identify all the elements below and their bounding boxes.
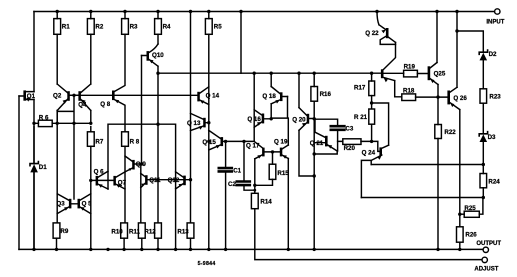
transistor Q20 xyxy=(307,114,310,124)
transistor Q11 xyxy=(145,175,148,185)
resistor R25 xyxy=(464,211,479,217)
transistor Q10 xyxy=(147,51,150,61)
wire bottom output rail xyxy=(19,248,483,250)
svg-text:Q 26: Q 26 xyxy=(453,95,467,102)
svg-text:R4: R4 xyxy=(163,23,171,30)
svg-text:R10: R10 xyxy=(111,228,123,235)
junction top rail at Q22 emitter xyxy=(375,10,378,13)
wire Q10 base vertical down to Q9 base xyxy=(141,56,143,165)
wire R26 bottom lead xyxy=(459,242,461,249)
junction bottom rail at R26 xyxy=(458,248,461,251)
arrow Q5 xyxy=(80,207,85,211)
junction bottom rail at x90.8 xyxy=(89,248,92,251)
arrow Q26 xyxy=(450,103,454,108)
arrow Q21 xyxy=(328,145,333,149)
junction 73-line at R17 xyxy=(370,72,373,75)
transistor Q5 xyxy=(78,199,81,209)
svg-text:Q 18: Q 18 xyxy=(262,93,276,100)
resistor R23 xyxy=(480,89,487,103)
resistor R5 xyxy=(205,19,212,35)
wire R25 left lead xyxy=(460,213,464,215)
zener diode D3 xyxy=(480,134,488,142)
junction top rail at Q26 collector xyxy=(455,10,458,13)
junction bottom rail at x175.6 xyxy=(174,248,177,251)
wire R1 leads xyxy=(56,12,58,85)
wire R6 line from x34 to R7 top xyxy=(34,122,91,124)
junction R17/R21 mid xyxy=(370,101,373,104)
arrow Q10 xyxy=(149,60,154,64)
svg-text:OUTPUT: OUTPUT xyxy=(476,241,501,247)
wire Q2 emitter down to R6 line xyxy=(56,111,58,124)
arrow Q24 xyxy=(377,155,381,160)
wire R17 leads xyxy=(371,73,373,109)
transistor Q4 xyxy=(78,91,81,101)
transistor Q22 xyxy=(386,28,389,38)
transistor Q6 xyxy=(96,176,99,186)
arrow Q16 xyxy=(257,122,262,126)
transistor Q18 xyxy=(280,92,283,101)
zener diode D2 xyxy=(480,53,488,61)
svg-text:Q7: Q7 xyxy=(118,179,127,186)
wire mid horizontal 73-line from Q10 emitter to Q23 base xyxy=(158,72,381,74)
wire R17/R21 junction over to Q24 collector xyxy=(372,103,389,145)
junction D3/R24 y164.5 xyxy=(482,163,485,166)
svg-text:D2: D2 xyxy=(489,51,497,58)
wire left vertical rail x=34 (wraps around Q1) xyxy=(33,12,35,250)
wire Q1 base drop to rail left end xyxy=(18,96,20,249)
arrow Q13 xyxy=(199,126,204,130)
junction Q2 emitter R6 line xyxy=(56,122,59,125)
svg-text:Q3: Q3 xyxy=(56,201,65,208)
junction Q2/Q4 base xyxy=(72,94,75,97)
wire R11 bottom lead xyxy=(141,238,143,249)
wire Q4 emitter down to R7 top xyxy=(90,111,92,124)
junction Q4 emitter R7 top xyxy=(89,122,92,125)
transistor Q13 xyxy=(203,118,206,128)
junction R15 top on Q17/Q19 base line xyxy=(271,150,274,153)
resistor R13 xyxy=(187,223,194,238)
wire upper x=254.2 vertical: 73-line to Q15 base line, Q16 attach, Q17 collector xyxy=(254,73,262,148)
resistor R26 xyxy=(457,227,464,242)
resistor R2 xyxy=(87,19,94,35)
wire R18 right lead to Q26 base node xyxy=(416,96,438,98)
wire Q24 emitter branches xyxy=(361,160,371,197)
junction Q15 base on x208.8 xyxy=(207,140,210,143)
svg-text:INPUT: INPUT xyxy=(486,20,504,26)
svg-text:R24: R24 xyxy=(488,178,500,185)
svg-text:R17: R17 xyxy=(354,84,366,91)
svg-text:D3: D3 xyxy=(488,134,496,141)
arrow Q6 xyxy=(98,184,103,188)
resistor R8 xyxy=(122,132,129,147)
wire R7 lead down through Q6 base to Q5 and bottom rail xyxy=(90,127,92,250)
junction R6 left on x34 xyxy=(32,122,35,125)
resistor R7 xyxy=(87,132,94,147)
wire Q11 collector/emitter vertical to R11 xyxy=(140,164,142,223)
svg-text:R16: R16 xyxy=(320,91,332,98)
svg-text:R19: R19 xyxy=(404,63,416,70)
arrow Q25 xyxy=(430,79,434,84)
transistor Q14 xyxy=(197,92,200,102)
svg-text:Q25: Q25 xyxy=(434,70,446,77)
svg-text:R9: R9 xyxy=(60,228,68,235)
svg-text:ADJUST: ADJUST xyxy=(474,267,498,273)
svg-text:Q 20: Q 20 xyxy=(292,116,306,123)
arrow Q8 xyxy=(115,100,120,104)
junction top rail at R2 xyxy=(89,10,92,13)
terminal INPUT xyxy=(495,9,500,14)
svg-text:R11: R11 xyxy=(129,228,141,235)
transistor Q23 xyxy=(381,69,384,78)
wire R23 bottom to D3 xyxy=(482,103,484,134)
wire horizontal y=164.5 to D3/R24 junction xyxy=(371,164,483,166)
resistor R6 xyxy=(38,120,52,126)
resistor R15 xyxy=(269,164,276,179)
junction C1 top on Q15 base line xyxy=(224,140,227,143)
svg-text:R23: R23 xyxy=(489,93,501,100)
resistor R22 xyxy=(435,125,442,139)
junction bottom rail at x208.8 xyxy=(207,248,210,251)
svg-text:C2: C2 xyxy=(228,181,236,188)
resistor R14 xyxy=(251,193,258,208)
wire D2 bottom to R23 xyxy=(482,60,484,88)
svg-text:R 8: R 8 xyxy=(130,138,140,145)
arrow Q17 xyxy=(257,155,262,159)
terminal OUTPUT xyxy=(483,247,488,252)
arrow Q12 xyxy=(179,184,184,187)
svg-text:Q 13: Q 13 xyxy=(187,120,201,127)
wire C2 leads xyxy=(244,141,255,190)
wire R5 lead down long vertical to bottom rail xyxy=(208,12,210,250)
svg-text:Q 14: Q 14 xyxy=(206,93,220,100)
emitter arrows xyxy=(26,30,454,211)
transistor Q25 xyxy=(428,66,431,80)
wire Q20 collector up to 73-line xyxy=(298,73,300,107)
arrow Q20 xyxy=(302,123,307,127)
wire R16 leads and x=314.2 vertical to bottom rail xyxy=(313,73,315,249)
resistor R17 xyxy=(369,81,375,96)
arrow Q4 xyxy=(81,99,86,103)
svg-text:Q 24: Q 24 xyxy=(362,149,376,156)
svg-text:Q4: Q4 xyxy=(78,102,87,109)
junction bottom rail at R11 xyxy=(140,248,143,251)
resistor R16 xyxy=(311,87,318,102)
resistor R11 xyxy=(138,223,145,238)
wire ADJUST line xyxy=(255,209,482,260)
junction Q6 base on R7 line xyxy=(89,179,92,182)
junction bottom rail at R10 xyxy=(122,248,125,251)
svg-text:R12: R12 xyxy=(144,228,156,235)
junction R15 bottom on x254.8 xyxy=(253,184,256,187)
wire C1 leads xyxy=(225,141,227,249)
junction Q16 base xyxy=(270,117,273,120)
svg-text:R1: R1 xyxy=(62,23,70,30)
junction base drop R6 line xyxy=(72,122,75,125)
svg-text:Q 22: Q 22 xyxy=(365,30,379,37)
junction y124.2 line at x158 xyxy=(156,123,159,126)
junction bottom rail at R9 xyxy=(55,248,58,251)
transistor Q1 xyxy=(23,90,26,100)
svg-text:R18: R18 xyxy=(403,87,415,94)
junction R12 on bias line xyxy=(156,178,159,181)
wire rail drop x=241 to 73-line xyxy=(240,12,242,74)
junction Q21 emitter on x314.2 xyxy=(313,152,316,155)
wire Q21 emitter over to x=314.2 xyxy=(314,151,337,154)
wire top supply rail to INPUT xyxy=(34,11,495,13)
junction bottom rail at Q19 emitter xyxy=(287,248,290,251)
junction R24 bottom y197.5 xyxy=(482,196,485,199)
svg-text:Q12: Q12 xyxy=(168,177,180,184)
arrow Q9 xyxy=(129,168,133,171)
svg-text:R3: R3 xyxy=(130,23,138,30)
wire R4 leads xyxy=(157,12,159,45)
wire horizontal y=124.2 from Q6 collector line to Q12 collector line xyxy=(108,124,176,249)
svg-text:R 6: R 6 xyxy=(39,114,49,121)
capacitor C3 xyxy=(331,126,345,130)
svg-text:R26: R26 xyxy=(465,231,477,238)
arrow Q19 xyxy=(282,155,287,159)
transistor Q2 xyxy=(67,91,70,101)
wire R8 lead down through Q9/Q7 attaches to R10 xyxy=(124,146,126,223)
junction top rail at Q25 collector xyxy=(435,10,438,13)
junction top rail at R1 xyxy=(56,10,59,13)
arrow Q2 xyxy=(63,99,68,103)
svg-text:Q 5: Q 5 xyxy=(82,201,93,208)
wire R9 bottom lead xyxy=(56,238,58,249)
wire D1 leads on x=34 xyxy=(33,127,35,250)
svg-text:R22: R22 xyxy=(444,129,456,136)
wire R22 leads xyxy=(437,97,439,249)
transistor Q24 xyxy=(379,147,382,155)
transistor Q7 xyxy=(113,176,116,186)
wire branch from Q26 collector line to D2 xyxy=(457,31,483,52)
svg-text:R25: R25 xyxy=(464,205,476,212)
junction bottom rail at x314.2 xyxy=(313,248,316,251)
transistor Q15 xyxy=(221,137,224,146)
junction bottom rail at R13 xyxy=(189,248,192,251)
arrow Q23 xyxy=(384,77,388,82)
svg-text:Q 19: Q 19 xyxy=(274,138,288,145)
wire R12 bottom lead xyxy=(157,238,159,249)
zener diode D1 xyxy=(30,164,38,172)
junction 73-line at x314.2 xyxy=(313,72,316,75)
wire Q3 collector up to R6 line / emitter down to R9 xyxy=(56,111,58,223)
wire R25 right lead riser xyxy=(479,198,483,215)
junction bottom rail at R12 xyxy=(156,248,159,251)
transistor Q26 xyxy=(447,91,450,105)
junction Q26 base / Q25 emitter / R18 right / R22 top xyxy=(436,95,439,98)
wire R10 bottom lead xyxy=(123,238,125,249)
resistor R24 xyxy=(480,174,487,188)
svg-text:R15: R15 xyxy=(277,170,289,177)
junction top rail at R4 xyxy=(156,10,159,13)
junction Q20 emitter on x314.2 xyxy=(313,174,316,177)
wire Q26 collector vertical from top rail xyxy=(456,12,458,88)
wire R13 bottom lead xyxy=(190,238,192,249)
resistor R12 xyxy=(155,223,162,238)
wire R2 leads xyxy=(90,12,92,85)
svg-text:5-9844: 5-9844 xyxy=(198,261,216,267)
svg-text:R20: R20 xyxy=(344,145,356,152)
wire Q20 emitter down and over to x=314.2 xyxy=(299,130,314,176)
svg-text:Q 15: Q 15 xyxy=(202,139,216,146)
wire Q18 collector up to 73-line xyxy=(270,73,272,86)
junction Q20 base / R16 bottom / C3 top xyxy=(313,117,316,120)
wire Q26 emitter vertical down through R25 node to R26 xyxy=(459,110,461,227)
wire R20 leads xyxy=(338,140,372,142)
svg-text:D1: D1 xyxy=(39,164,47,171)
svg-text:Q 16: Q 16 xyxy=(247,116,261,123)
junction Q12 base on R13 line xyxy=(189,178,192,181)
junction R25 left on Q26 emitter line xyxy=(458,213,461,216)
resistor R20 xyxy=(343,139,361,145)
svg-text:C1: C1 xyxy=(233,167,241,174)
junction top rail at x190.5 xyxy=(189,10,192,13)
junction top rail at R5 xyxy=(207,10,210,13)
terminal ADJUST xyxy=(482,257,487,262)
junction bottom rail at R22 xyxy=(436,248,439,251)
arrow Q7 xyxy=(116,184,121,188)
junction bottom rail at C1 xyxy=(224,248,227,251)
wire Q18 base loop to Q16 base and Q19 collector xyxy=(271,97,287,119)
svg-text:Q 8: Q 8 xyxy=(100,101,111,108)
svg-text:Q 21: Q 21 xyxy=(310,140,324,147)
wire C3 leads xyxy=(314,119,337,151)
resistor R4 xyxy=(155,19,162,35)
arrow Q15 xyxy=(216,145,221,149)
svg-text:Q 6: Q 6 xyxy=(94,168,105,175)
junction 73-line at x271.2 xyxy=(270,72,273,75)
transistor Q3 xyxy=(69,199,72,209)
resistor R18 xyxy=(402,94,416,101)
junction C2 bottom on x254.8 xyxy=(253,189,256,192)
resistor R3 xyxy=(122,19,129,35)
transistor Q12 xyxy=(183,176,186,186)
wire Q25 emitter down to Q26 base node xyxy=(437,85,439,98)
resistor R19 xyxy=(404,70,418,77)
svg-text:R5: R5 xyxy=(214,23,222,30)
junction D2 branch xyxy=(455,29,458,32)
capacitor C2 xyxy=(237,182,250,186)
junction top rail at x241 xyxy=(239,10,242,13)
transistor Q9 xyxy=(132,160,135,170)
junction C2 top on Q15 base line xyxy=(242,140,245,143)
wire Q22 collector drop / Q23 collector line xyxy=(383,42,395,69)
junction 73-line at x299 xyxy=(297,72,300,75)
junction top rail at R3 xyxy=(123,10,126,13)
resistor R10 xyxy=(121,223,128,238)
junction Q10 emitter 73-line xyxy=(156,72,159,75)
junction bottom rail at x34 xyxy=(32,248,35,251)
svg-text:Q2: Q2 xyxy=(53,93,62,100)
wire Q23 emitter down to R18 left xyxy=(395,81,402,97)
wire R15 leads xyxy=(255,152,273,185)
resistor R1 xyxy=(54,19,61,35)
wire Q2/Q4 base drop to Q3/Q5 bases with tap to Q2 emitter line xyxy=(57,95,74,199)
arrow Q1 xyxy=(26,98,30,102)
svg-text:R 21: R 21 xyxy=(354,114,368,121)
wire vertical x=190.5 from top rail through Q13 and Q12 base to R13 xyxy=(190,12,192,223)
junction Q13 base xyxy=(207,121,210,124)
wire Q10 emitter to 73-line junction and down through bias line to R12 xyxy=(157,66,159,223)
arrow Q3 xyxy=(64,207,69,211)
junction Q9 base on Q10 base line xyxy=(140,162,143,165)
wire lower x=254.8 vertical: Q17 emitter to R14 xyxy=(254,159,256,194)
transistor Q17 xyxy=(262,148,265,157)
resistor R21 xyxy=(369,109,375,124)
resistor R9 xyxy=(53,223,60,238)
arrow Q14 xyxy=(200,100,205,104)
capacitor C1 xyxy=(219,168,232,171)
svg-text:Q1: Q1 xyxy=(27,93,36,100)
svg-text:R13: R13 xyxy=(177,228,189,235)
arrow Q11 xyxy=(141,183,145,186)
wire R3 lead down to Q8 collector xyxy=(115,12,125,92)
wire R21 bottom to Q24 base node xyxy=(371,124,373,141)
wire horizontal y=197.5 to R24 bottom junction xyxy=(361,197,483,199)
svg-text:R7: R7 xyxy=(95,138,103,145)
arrow Q22 xyxy=(381,30,385,34)
transistor Q21 xyxy=(325,136,328,147)
transistor Q19 xyxy=(280,148,283,157)
junction 73-line at x254.2 xyxy=(253,72,256,75)
junction bottom rail at x108 xyxy=(106,248,109,251)
wire R24 leads xyxy=(482,165,484,198)
wire D3 bottom to y=164.5 junction xyxy=(482,142,484,165)
svg-text:R2: R2 xyxy=(95,23,103,30)
arrow Q18 xyxy=(275,100,280,104)
svg-text:Q 9: Q 9 xyxy=(136,161,147,168)
transistor Q16 xyxy=(262,114,265,124)
wire R19 leads xyxy=(384,72,428,74)
junction Q24 base / R21 bottom / R20 right xyxy=(370,140,373,143)
wire Q18 emitter down to Q16 base node xyxy=(270,104,272,119)
wire Q25 collector up to top rail xyxy=(436,12,438,63)
svg-text:R14: R14 xyxy=(260,198,272,205)
svg-text:C3: C3 xyxy=(345,125,353,132)
svg-text:Q10: Q10 xyxy=(152,52,164,59)
svg-text:Q11: Q11 xyxy=(149,177,161,184)
transistor Q8 xyxy=(112,91,115,101)
wire Q19 collector up to Q18 base loop / emitter down to rail xyxy=(287,118,289,249)
svg-text:Q 17: Q 17 xyxy=(246,142,260,149)
